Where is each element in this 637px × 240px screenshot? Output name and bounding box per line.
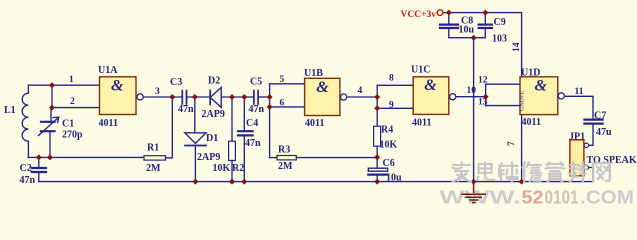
svg-text:10K: 10K [380,140,398,151]
capacitor C2 [32,157,46,181]
svg-text:2: 2 [70,97,75,107]
svg-text:10u: 10u [459,25,475,36]
power VCC+3v [401,10,443,20]
svg-text:10u: 10u [386,173,402,184]
svg-text:5: 5 [280,75,285,85]
node: C9 tap on VCC [482,10,488,16]
resistor R2 [229,141,236,181]
svg-text:U1D: U1D [521,68,540,79]
svg-text:47n: 47n [178,104,194,115]
wire: U1D pin12 [486,83,520,85]
node: pin2/C1 junction [49,105,55,111]
wire: U1B pin6 [270,106,305,108]
wire: R1 to U1A output [171,97,173,158]
NAND gate U1A [98,65,143,129]
node: C2 tap on tank bottom [36,154,42,160]
capacitor C7 [584,120,602,146]
wire: U1D pin7 ground [521,115,523,182]
svg-text:52: 52 [522,188,544,208]
wire: U1C pin9 [377,107,413,109]
watermark: site URL [440,188,635,208]
wire: U1A pin2 [52,107,100,109]
node: C5/U1B input junction [267,94,273,100]
node: pin9 junction [374,105,380,111]
wire: U1D pin13 [486,105,520,107]
svg-text:&: & [111,77,124,94]
wire: tank bottom net [28,156,144,158]
wire: U1D input tie [485,84,487,105]
diode D2 [210,87,254,107]
svg-text:&: & [424,77,437,94]
node: pin7 on ground bus [519,179,525,185]
capacitor C1 (trimmer) [39,108,59,158]
resistor R1 [144,156,172,160]
svg-text:10: 10 [467,86,477,96]
wire: U1A output net [143,96,182,98]
svg-text:270p: 270p [62,130,83,141]
svg-text:GMJFE: GMJFE [519,90,526,111]
svg-text:U1C: U1C [411,65,430,76]
svg-text:4011: 4011 [522,117,541,128]
svg-text:10K: 10K [213,163,231,174]
svg-text:7: 7 [507,141,517,146]
node: C4 on ground bus [241,179,247,185]
svg-text:2AP9: 2AP9 [202,109,225,120]
capacitor C8 [440,13,458,38]
svg-text:L1: L1 [4,105,16,116]
svg-text:JP1: JP1 [569,131,585,142]
wire: VCC rail [443,13,522,77]
wire: U1C output net (pin10) [456,96,486,98]
svg-text:103: 103 [492,34,507,45]
svg-text:4011: 4011 [305,118,324,129]
svg-text:R4: R4 [381,125,393,136]
resistor R3 [277,156,296,160]
node: R2 tap [229,94,235,100]
wire: R3 to timing node [296,157,377,159]
svg-text:8: 8 [389,74,394,84]
svg-text:47u: 47u [596,127,612,138]
wire: to resistor R3 [270,157,277,159]
wire: U1B input tie [269,84,271,158]
wire: C8-C9 bottom tie [449,37,486,39]
svg-text:4: 4 [358,86,363,96]
svg-text:13: 13 [478,98,488,108]
wire: U1B pin5 [270,83,305,85]
svg-text:D1: D1 [206,133,218,144]
svg-text:D2: D2 [208,76,220,87]
svg-text:R3: R3 [278,145,290,156]
node: U1D input junction [483,94,489,100]
svg-text:R1: R1 [147,143,159,154]
svg-text:1: 1 [69,75,74,85]
connector JP1 [569,131,589,176]
node: R4/C6/R3 timing node [374,154,380,160]
node: pin6 junction [267,104,273,110]
NAND gate U1B [304,68,347,129]
wire: decoupling ground drop [473,38,475,182]
wire: U1C pin8 [377,84,413,86]
svg-text:12: 12 [478,76,488,86]
node: C8 tap on VCC [446,10,452,16]
svg-text:6: 6 [280,99,285,109]
svg-text:11: 11 [575,87,584,97]
svg-text:&: & [535,77,548,94]
svg-text:C9: C9 [494,17,506,28]
svg-text:.COM: .COM [580,188,634,208]
node: R1 tap on U1A output [169,94,175,100]
svg-text:C2: C2 [20,163,32,174]
svg-text:47n: 47n [245,138,261,149]
svg-text:C7: C7 [594,111,606,122]
svg-text:U1B: U1B [304,68,323,79]
wire: D1 branch [194,97,196,133]
capacitor C3 [182,91,210,104]
svg-text:47n: 47n [249,104,265,115]
node: D1 on ground bus [192,179,198,185]
diode D1 [185,133,206,182]
node: ground symbol junction [471,179,477,185]
svg-text:&: & [316,79,329,96]
node: C4 tap [241,94,247,100]
node: R2 on ground bus [229,179,235,185]
node: D1 tap [192,94,198,100]
svg-text:2M: 2M [278,161,293,172]
svg-text:0101: 0101 [545,188,579,208]
svg-text:14: 14 [512,42,522,52]
svg-text:C6: C6 [383,158,395,169]
svg-text:C3: C3 [170,77,182,88]
svg-text:3: 3 [155,87,160,97]
node: ground drop tap [471,35,477,41]
wire: U1D output (pin11) to C7 [565,96,593,118]
svg-text:9: 9 [389,101,394,111]
node: C1 bottom on tank bottom [47,154,53,160]
wire: U1C input tie [376,85,378,126]
svg-text:C4: C4 [246,118,258,129]
capacitor C9 [479,13,492,38]
wire: C4 branch [243,97,245,130]
capacitor C4 [238,131,253,181]
svg-text:4011: 4011 [99,118,118,129]
svg-text:4011: 4011 [412,118,431,129]
wire: R2 branch [231,97,233,141]
ground symbol [461,182,486,203]
svg-text:U1A: U1A [98,65,118,76]
wire: L1 top to U1A pin1 [28,84,99,86]
wire: JP1 pin2 to ground [589,168,593,182]
svg-text:47n: 47n [20,175,36,186]
watermark: site name characters [452,162,609,181]
svg-text:C5: C5 [250,77,262,88]
capacitor C5 [254,91,270,104]
node: C6 on ground bus [374,179,380,185]
svg-text:C1: C1 [62,119,74,130]
capacitor C6 [368,157,387,181]
resistor R4 [374,126,381,157]
svg-text:VCC+3v: VCC+3v [401,10,437,20]
wire: node A vertical (pins 1-2 tie) [51,85,53,107]
svg-text:2AP9: 2AP9 [197,152,220,163]
svg-text:2M: 2M [146,163,161,174]
NAND gate U1D [519,68,565,129]
node: pin1/L1 junction [49,82,55,88]
svg-text:R2: R2 [232,163,244,174]
inductor L1 [22,85,28,157]
ground bus wire [39,181,593,183]
wire: U1B output net (pin4) [347,96,377,98]
NAND gate U1C [411,65,456,129]
node: pin4 on U1C input [374,94,380,100]
